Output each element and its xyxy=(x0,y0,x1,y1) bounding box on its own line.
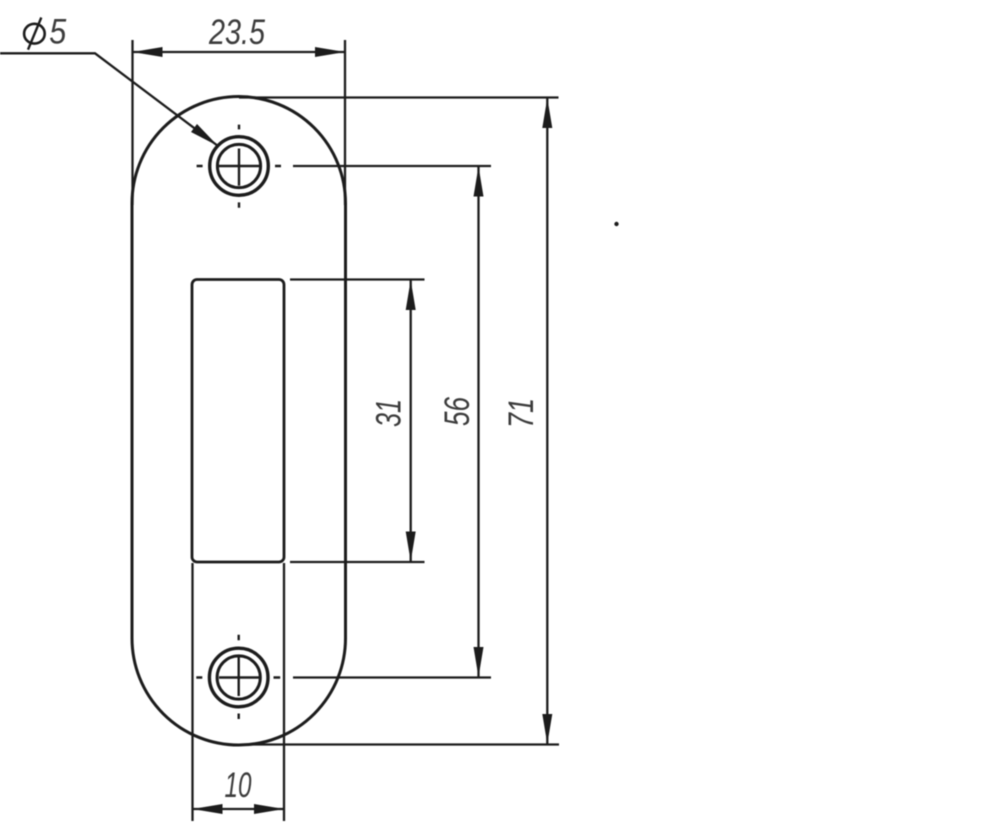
dim 56 extension line bottom xyxy=(293,676,491,678)
dim 31 extension line top xyxy=(290,278,425,280)
bottom hole inner circle xyxy=(217,656,260,699)
bottom hole outer circle xyxy=(209,648,268,707)
dim 23.5 extension line right xyxy=(344,40,346,205)
dim 56 arrow top xyxy=(474,167,484,197)
leader arrowhead xyxy=(191,124,218,146)
dim 10 extension line left xyxy=(191,563,193,821)
dim 56 dimension line xyxy=(477,167,479,678)
leader diameter-symbol slash xyxy=(28,18,41,50)
dim 71 arrow bottom xyxy=(542,714,552,744)
dim 71 extension line top xyxy=(239,96,559,98)
dim 10 arrow right xyxy=(254,804,284,814)
svg-text:23.5: 23.5 xyxy=(208,13,265,52)
dim 71 dimension line xyxy=(546,98,548,744)
dim 31 extension line bottom xyxy=(290,561,425,563)
dim 10 arrow left xyxy=(193,804,223,814)
dim 71 arrow top xyxy=(542,98,552,128)
top hole inner circle xyxy=(217,144,260,187)
dim 23.5 arrow right xyxy=(315,47,345,57)
svg-text:71: 71 xyxy=(502,398,541,428)
dim 31 dimension line xyxy=(410,280,412,562)
stray dot xyxy=(614,222,618,226)
dim 10 dimension line xyxy=(193,808,285,810)
dim 23.5 extension line left xyxy=(131,40,133,205)
svg-text:5: 5 xyxy=(49,13,66,52)
leader line xyxy=(0,53,218,146)
top hole outer circle xyxy=(210,137,269,196)
leader diameter-symbol circle xyxy=(24,24,45,44)
dim 71 extension line bottom xyxy=(250,743,559,745)
plate outline xyxy=(132,97,346,745)
dim 23.5 dimension line xyxy=(133,51,346,53)
dim 10 extension line right xyxy=(283,563,285,821)
top hole centerlines xyxy=(197,125,281,208)
svg-text:10: 10 xyxy=(225,766,252,805)
slot xyxy=(192,280,284,563)
svg-text:31: 31 xyxy=(370,399,409,427)
dim 23.5 arrow left xyxy=(133,47,163,57)
bottom hole centerlines xyxy=(196,635,280,719)
dim 31 arrow top xyxy=(406,280,416,310)
dim 56 extension line top xyxy=(293,165,491,167)
dim 31 arrow bottom xyxy=(406,532,416,562)
svg-text:56: 56 xyxy=(438,397,477,426)
dim 56 arrow bottom xyxy=(474,647,484,677)
